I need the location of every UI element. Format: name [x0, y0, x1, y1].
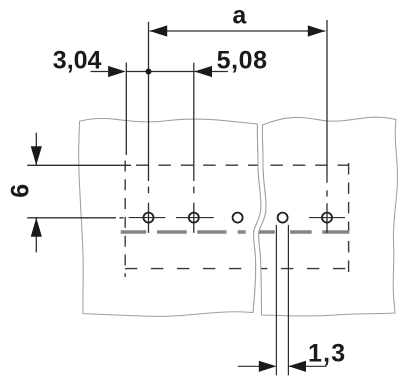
- hole centerline verticals (dash-dot lower parts): [149, 187, 328, 233]
- break gap mask between torn pieces: [253, 124, 266, 315]
- extension line hole5 column (solid part): [326, 20, 328, 183]
- dimension 5,08: [194, 63, 228, 181]
- PCB piece right (torn board section): [259, 117, 398, 316]
- extension line hole1 column (solid part): [148, 22, 150, 181]
- dashed outline rectangle (component footprint): [125, 161, 349, 278]
- bottom edge: [125, 268, 349, 270]
- arrow 1,3 right (points left): [288, 361, 306, 372]
- dimension 6 (vertical, left): [27, 133, 131, 253]
- svg-text:1,3: 1,3: [308, 339, 346, 367]
- arrow 5,08 (points left): [194, 66, 212, 77]
- break edge right line: [259, 125, 266, 315]
- hole1 centerline: [148, 187, 150, 233]
- hole 1: [144, 213, 154, 223]
- svg-text:a: a: [232, 1, 247, 29]
- hole2 centerline: [193, 187, 195, 233]
- svg-text:3,04: 3,04: [53, 46, 102, 74]
- extension line top: [27, 164, 131, 166]
- hole 3: [233, 213, 243, 223]
- hole crosshair horizontals: [129, 217, 345, 219]
- dimension 1,3 extension lines (tangent to hole 4): [238, 225, 327, 375]
- hole 5: [322, 213, 332, 223]
- top edge: [125, 164, 349, 166]
- left edge: [124, 161, 126, 278]
- svg-text:5,08: 5,08: [217, 47, 268, 75]
- arrow 6 bottom (points up): [31, 218, 42, 237]
- thick gray dashed line (board edge): [121, 230, 349, 234]
- right edge: [348, 163, 350, 272]
- arrow left of dimension a: [150, 25, 168, 36]
- dimension 3,04: [91, 63, 194, 155]
- arrow 1,3 left (points right): [259, 361, 277, 372]
- dot at hole1 extension: [146, 69, 152, 75]
- arrow 3,04 (points right): [108, 66, 126, 77]
- hole5 centerline: [326, 190, 328, 233]
- PCB piece left (torn board section): [79, 119, 261, 317]
- hole 4: [278, 213, 288, 223]
- svg-text:6: 6: [6, 184, 34, 198]
- dimension 'a' line: [150, 30, 326, 32]
- extension line at hole row: [27, 217, 123, 219]
- break edge left line: [253, 124, 261, 313]
- hole 2: [189, 213, 199, 223]
- arrow right of dimension a: [308, 25, 326, 36]
- arrow 6 top (points down): [31, 146, 42, 165]
